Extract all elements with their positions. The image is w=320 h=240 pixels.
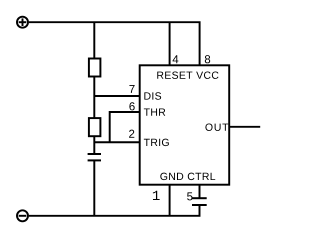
- wire R2 to C1 with TRIG junction: [93, 136, 95, 154]
- pin label 4: [173, 55, 179, 63]
- wire OUT pin: [229, 126, 260, 128]
- capacitor C2: [192, 198, 207, 205]
- wire top rail with pin 8 drop: [29, 22, 200, 65]
- resistor R2: [89, 118, 101, 136]
- resistor R1: [89, 59, 101, 77]
- wire pin 5 CTRL: [199, 185, 201, 199]
- wire pin 4 drop: [169, 22, 171, 65]
- label GND CTRL: [160, 173, 215, 180]
- pin label 8: [205, 55, 210, 63]
- pin label 7: [129, 85, 134, 93]
- label OUT: [205, 123, 228, 130]
- wire pin 2 TRIG: [94, 141, 140, 143]
- capacitor C1: [88, 154, 101, 160]
- wire R1 to R2 with DIS junction: [93, 77, 95, 119]
- wire bottom ground rail from C2: [29, 205, 200, 216]
- pin label 6: [129, 102, 134, 110]
- label DIS: [144, 92, 161, 99]
- wire C1 to ground rail: [93, 160, 95, 215]
- negative supply terminal: [17, 210, 28, 221]
- label THR: [144, 108, 165, 115]
- wire pin 6 THR and connector to TRIG: [110, 112, 141, 142]
- IC U1 555 timer body: [140, 65, 230, 184]
- wire pin 7 DIS: [94, 95, 140, 97]
- pin label 5: [187, 192, 192, 200]
- label RESET VCC: [157, 71, 218, 78]
- pin label 2: [129, 130, 134, 138]
- wire pin 1 GND: [169, 185, 171, 216]
- positive supply terminal: [17, 17, 28, 28]
- label TRIG: [144, 139, 169, 146]
- pin label 1: [153, 191, 160, 200]
- wire VCC spine upper: [93, 22, 95, 59]
